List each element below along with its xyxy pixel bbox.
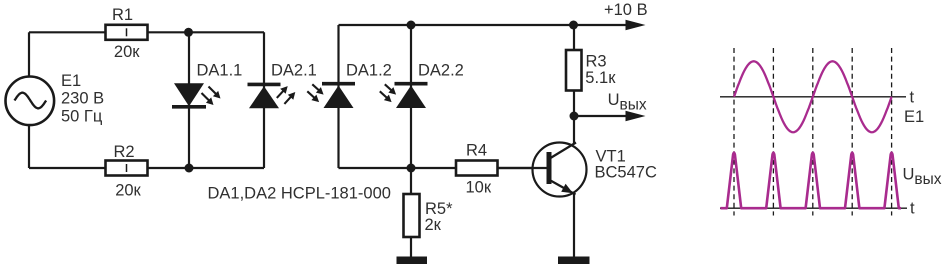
svg-text:+10 В: +10 В: [604, 1, 648, 19]
svg-text:50 Гц: 50 Гц: [61, 107, 103, 125]
svg-text:R3: R3: [586, 53, 607, 71]
svg-text:DA2.2: DA2.2: [418, 62, 464, 80]
svg-text:t: t: [910, 199, 915, 217]
svg-text:R2: R2: [113, 143, 134, 161]
svg-text:BC547C: BC547C: [595, 164, 657, 182]
svg-text:DA1.1: DA1.1: [197, 62, 243, 80]
svg-text:R1: R1: [112, 6, 133, 24]
svg-text:R4: R4: [466, 141, 487, 159]
svg-text:10к: 10к: [466, 178, 492, 196]
svg-text:20к: 20к: [114, 43, 140, 61]
svg-text:230 В: 230 В: [61, 90, 104, 108]
svg-text:DA2.1: DA2.1: [271, 62, 317, 80]
svg-text:20к: 20к: [115, 182, 141, 200]
svg-text:2к: 2к: [425, 216, 442, 234]
svg-text:DA1.2: DA1.2: [346, 62, 392, 80]
svg-text:DA1,DA2 HCPL-181-000: DA1,DA2 HCPL-181-000: [208, 184, 391, 202]
svg-text:E1: E1: [904, 108, 924, 126]
svg-text:E1: E1: [61, 72, 81, 90]
svg-text:5.1к: 5.1к: [585, 69, 616, 87]
svg-text:t: t: [910, 88, 915, 106]
